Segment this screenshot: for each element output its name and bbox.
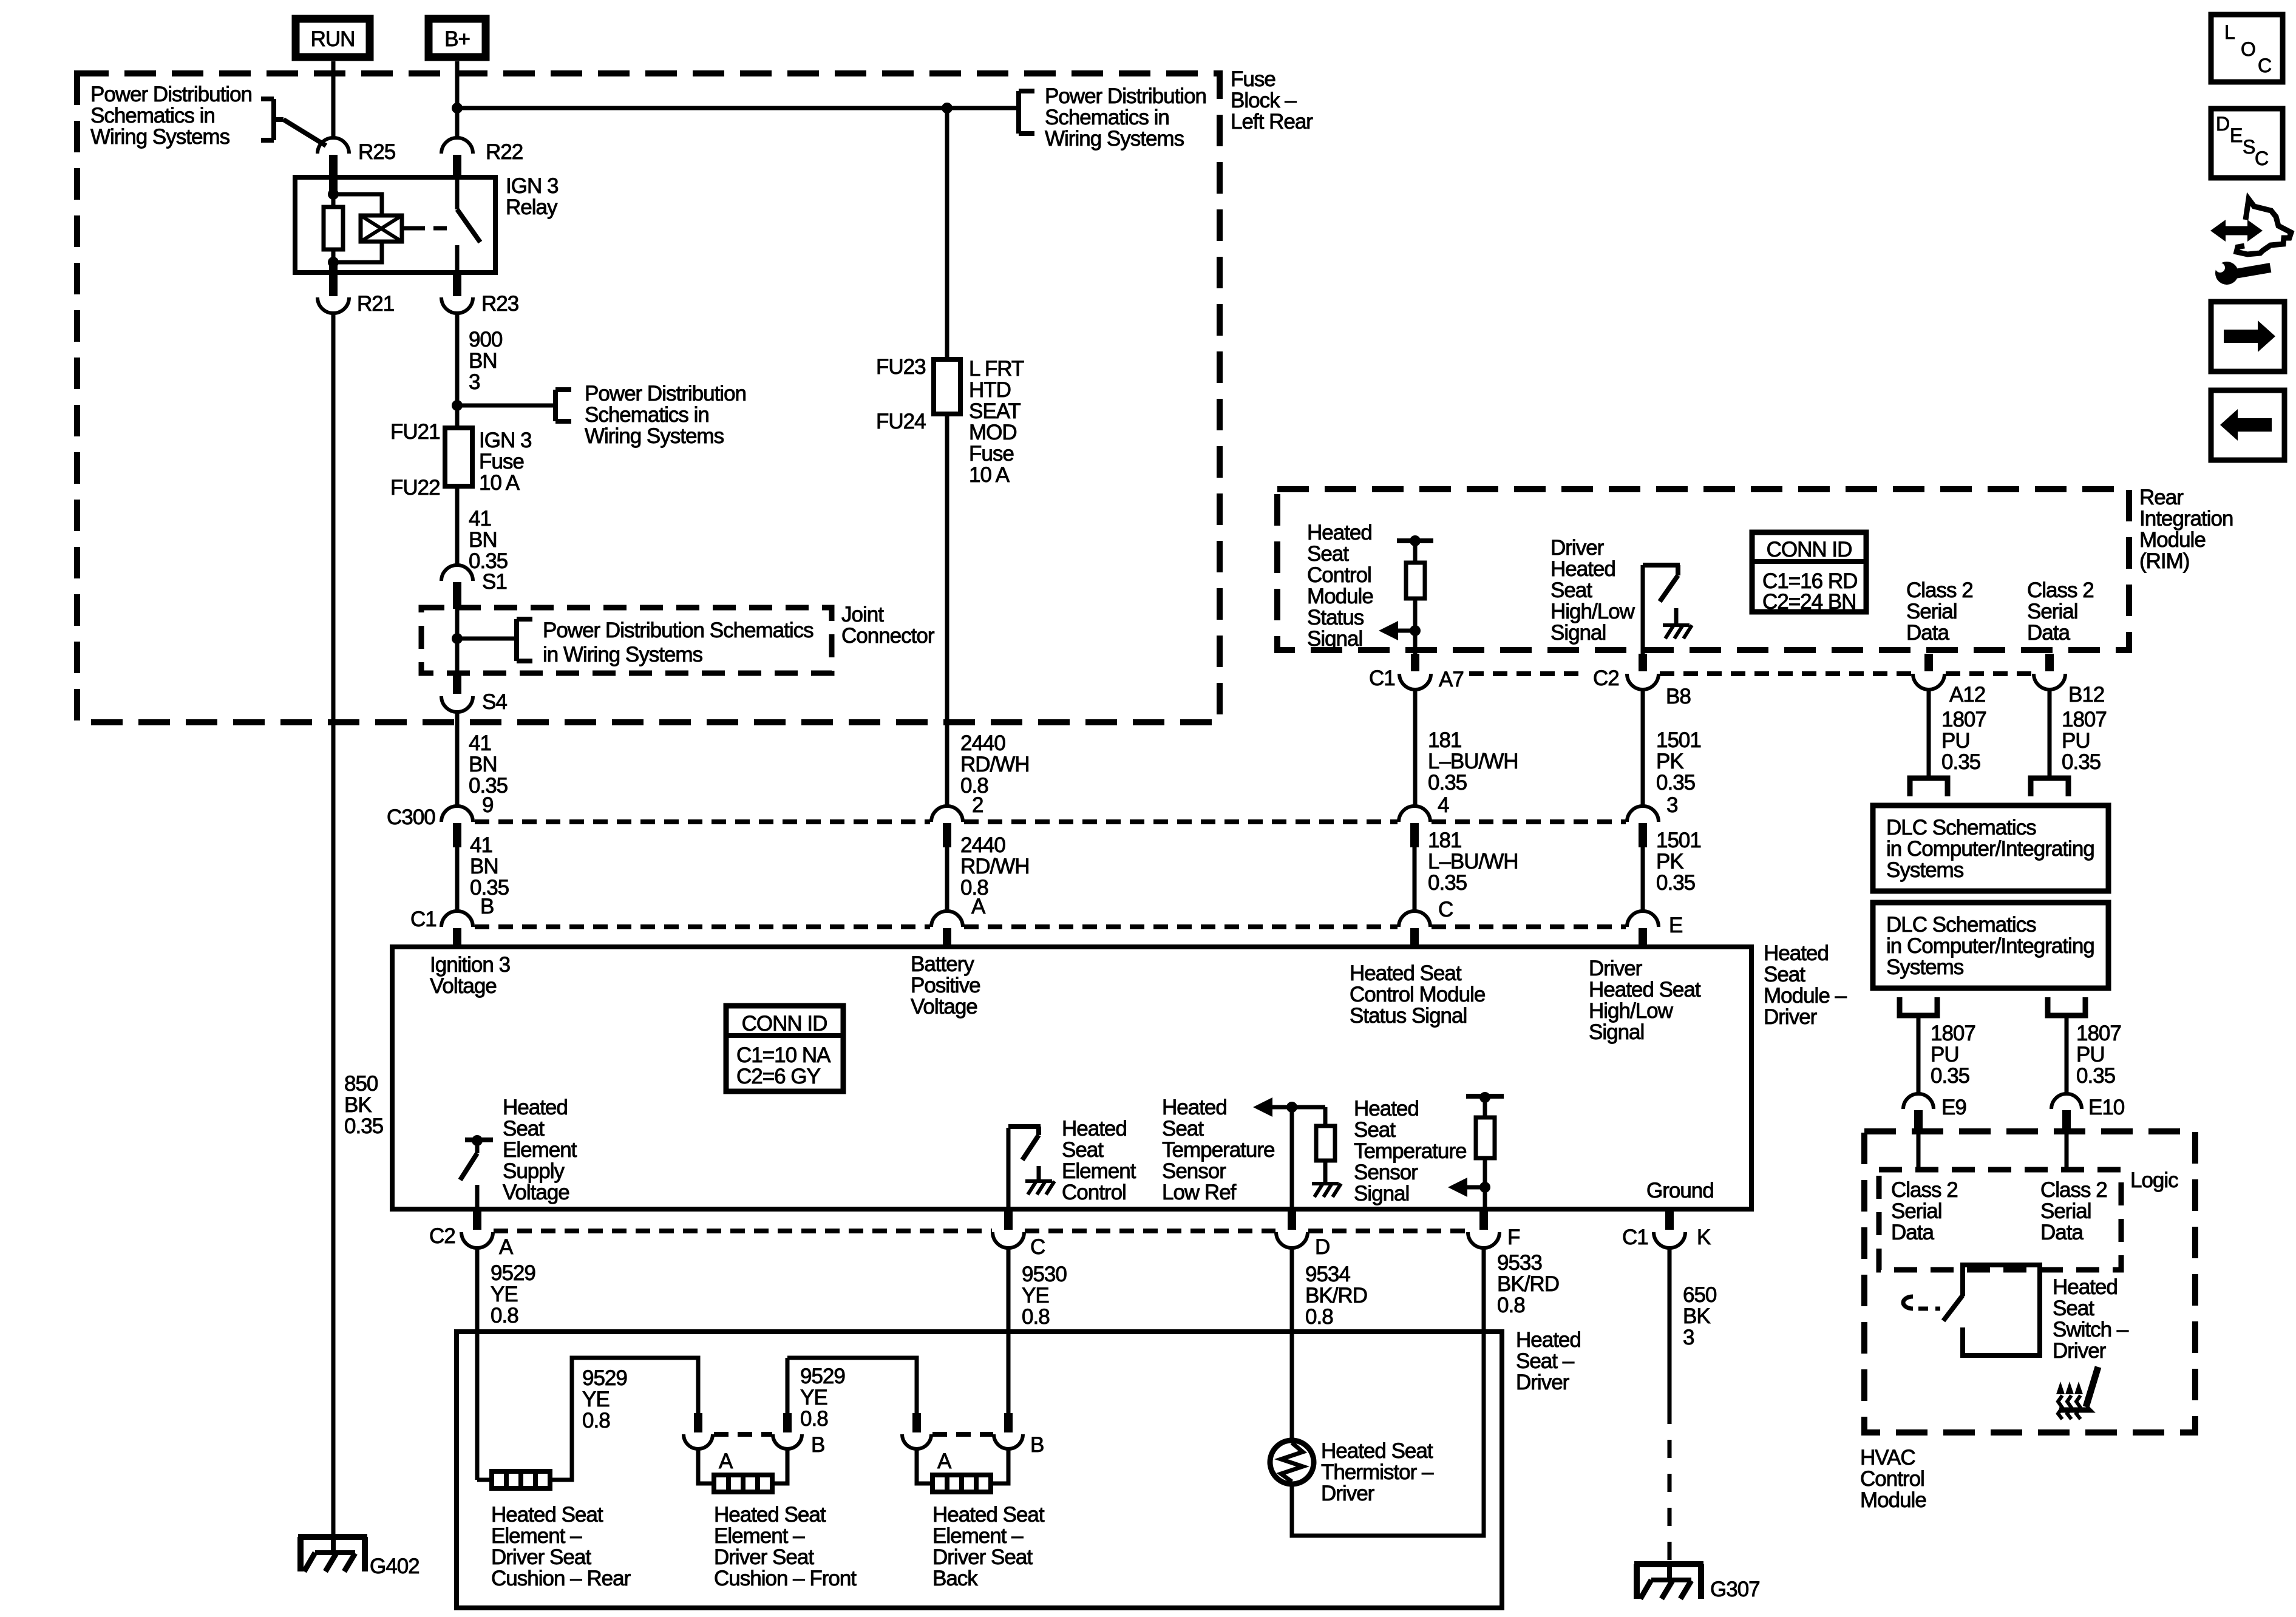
label 9529 YE 0.8 (element bridge 2) xyxy=(800,1364,845,1431)
svg-text:C: C xyxy=(2258,55,2271,76)
svg-text:850: 850 xyxy=(344,1072,378,1096)
svg-text:Seat: Seat xyxy=(1354,1118,1396,1142)
svg-text:PU: PU xyxy=(1941,729,1970,753)
label Logic xyxy=(2130,1168,2178,1192)
svg-text:Data: Data xyxy=(1906,621,1949,645)
svg-text:Heated Seat: Heated Seat xyxy=(1321,1439,1433,1463)
svg-text:Driver Seat: Driver Seat xyxy=(491,1545,591,1569)
fuse block left rear dashed box xyxy=(77,73,1220,722)
svg-text:9530: 9530 xyxy=(1022,1263,1067,1286)
svg-text:Control Module: Control Module xyxy=(1350,983,1485,1006)
svg-text:Voltage: Voltage xyxy=(911,995,977,1019)
svg-text:A12: A12 xyxy=(1949,683,1985,707)
wire 41 BN 0.35 C300 to C1 xyxy=(455,847,460,912)
label 650 BK 3 (pin K) xyxy=(1683,1283,1717,1349)
svg-text:C1=10 NA: C1=10 NA xyxy=(736,1043,831,1067)
svg-text:1807: 1807 xyxy=(2076,1022,2121,1045)
svg-text:Data: Data xyxy=(1891,1221,1934,1244)
svg-text:Serial: Serial xyxy=(1906,600,1957,623)
wire through joint connector xyxy=(455,606,460,675)
icon arrow left xyxy=(2211,390,2284,460)
connector element2 pin A xyxy=(684,1413,733,1473)
label Class 2 Serial Data (RIM right) xyxy=(2027,578,2094,645)
svg-text:PK: PK xyxy=(1656,850,1683,873)
pointer bracket power distribution (middle) xyxy=(457,390,571,421)
svg-text:BN: BN xyxy=(470,855,498,878)
svg-text:C: C xyxy=(2255,147,2268,169)
svg-text:Systems: Systems xyxy=(1886,858,1964,882)
label 41 BN 0.35 B xyxy=(470,833,509,918)
svg-text:PU: PU xyxy=(1931,1043,1959,1066)
svg-text:Heated: Heated xyxy=(1550,557,1615,581)
svg-text:PK: PK xyxy=(1656,750,1683,773)
wire 9534 pin D to thermistor xyxy=(1290,1248,1294,1441)
label FU24 xyxy=(876,410,926,433)
svg-text:MOD: MOD xyxy=(969,421,1017,444)
svg-text:C2: C2 xyxy=(1593,666,1619,690)
terminal goalpost A12 xyxy=(1910,778,1948,796)
terminal goalpost E9 xyxy=(1900,997,1937,1015)
label Driver Heated Seat High/Low Signal (RIM) xyxy=(1550,536,1635,645)
svg-text:Schematics in: Schematics in xyxy=(585,403,709,427)
svg-text:Relay: Relay xyxy=(506,195,558,219)
svg-text:Wiring Systems: Wiring Systems xyxy=(585,424,724,448)
label 2440 RD/WH 0.8 A xyxy=(960,833,1030,918)
ground G402 xyxy=(298,1537,419,1578)
connector C1 A7 xyxy=(1369,654,1464,691)
wire 1501 PK to pin E xyxy=(1641,847,1645,912)
icon arrow right xyxy=(2211,302,2284,371)
svg-text:A: A xyxy=(719,1449,733,1473)
svg-text:S: S xyxy=(2243,136,2255,158)
svg-text:Module: Module xyxy=(1860,1488,1926,1512)
label FU23 xyxy=(876,355,926,379)
connector C2 pin F xyxy=(1468,1212,1520,1249)
svg-text:Serial: Serial xyxy=(1891,1199,1941,1223)
label Driver Heated Seat High/Low Signal (module) xyxy=(1589,957,1701,1044)
connector C300 pin 9/B xyxy=(441,806,473,847)
svg-text:Class 2: Class 2 xyxy=(1906,578,1973,602)
label Heated Seat Module - Driver xyxy=(1764,941,1847,1029)
svg-text:Heated: Heated xyxy=(1764,941,1829,965)
connector C1 pin K xyxy=(1622,1212,1711,1249)
svg-text:Module: Module xyxy=(2139,528,2206,552)
wire 650 BK pin K to G307 xyxy=(1668,1248,1672,1565)
svg-text:Fuse: Fuse xyxy=(969,442,1014,466)
wire B+ to relay R22 xyxy=(455,61,460,138)
wire RUN to relay R25 xyxy=(331,61,336,138)
element2 connector dashed link xyxy=(714,1432,772,1437)
svg-text:Driver: Driver xyxy=(1764,1005,1818,1029)
connector E9 xyxy=(1903,1094,1966,1134)
svg-text:C1: C1 xyxy=(1369,666,1395,690)
node fuse feed junction xyxy=(452,400,463,411)
svg-text:3: 3 xyxy=(1666,793,1677,817)
svg-text:9533: 9533 xyxy=(1497,1251,1542,1275)
label 1501 PK 0.35 E xyxy=(1656,829,1701,937)
wire element2 to element3 xyxy=(772,1358,917,1483)
svg-text:0.8: 0.8 xyxy=(1305,1305,1333,1329)
svg-text:Class 2: Class 2 xyxy=(2040,1178,2107,1202)
svg-text:Driver: Driver xyxy=(1321,1482,1375,1505)
svg-text:0.35: 0.35 xyxy=(1931,1064,1969,1088)
svg-text:1807: 1807 xyxy=(2062,708,2107,731)
svg-text:YE: YE xyxy=(491,1283,518,1306)
pointer bracket to R25 xyxy=(261,99,326,146)
connector C2 B8 xyxy=(1593,654,1691,708)
conn id table module xyxy=(726,1006,843,1091)
svg-text:9529: 9529 xyxy=(800,1364,845,1388)
switch RIM high/low xyxy=(1643,565,1692,654)
label 1807 PU 0.35 (E9) xyxy=(1931,1022,1975,1088)
svg-text:Sensor: Sensor xyxy=(1354,1161,1418,1184)
svg-text:Ignition 3: Ignition 3 xyxy=(430,953,510,977)
svg-text:Power Distribution: Power Distribution xyxy=(1045,84,1206,108)
wire 9533 thermistor to pin F xyxy=(1292,1248,1484,1536)
svg-text:Status Signal: Status Signal xyxy=(1350,1004,1467,1028)
connector row C300 dashed line xyxy=(475,819,1626,824)
svg-text:Cushion – Rear: Cushion – Rear xyxy=(491,1567,631,1590)
svg-text:Seat: Seat xyxy=(503,1117,545,1141)
svg-text:Temperature: Temperature xyxy=(1354,1139,1466,1163)
connector C1 pin C xyxy=(1399,911,1430,949)
resistor temp sensor low ref pull xyxy=(1253,1097,1341,1209)
svg-text:Driver: Driver xyxy=(1550,536,1605,560)
svg-text:Rear: Rear xyxy=(2139,486,2184,509)
heated seat element driver seat cushion rear xyxy=(492,1471,550,1488)
svg-text:Element –: Element – xyxy=(932,1524,1024,1548)
svg-text:1807: 1807 xyxy=(1931,1022,1975,1045)
svg-text:0.8: 0.8 xyxy=(1497,1293,1525,1317)
resistor temp sensor signal pull xyxy=(1448,1092,1504,1209)
icon heated seat xyxy=(2056,1367,2098,1419)
svg-text:A: A xyxy=(971,895,986,918)
label power distribution schematics (top left) xyxy=(90,83,252,149)
wire element1 to element2 connector A xyxy=(550,1358,698,1480)
svg-text:BN: BN xyxy=(469,349,497,373)
svg-text:Heated Seat: Heated Seat xyxy=(491,1503,603,1527)
node B+ junction xyxy=(452,103,463,114)
svg-text:BN: BN xyxy=(469,753,497,776)
svg-text:E: E xyxy=(2230,124,2242,146)
svg-text:E10: E10 xyxy=(2088,1096,2125,1119)
terminal RUN xyxy=(296,19,370,57)
svg-text:FU21: FU21 xyxy=(390,420,440,444)
joint connector dashed box xyxy=(421,608,832,673)
label Heated Seat Element - Driver Seat Cushion - Front xyxy=(714,1503,857,1590)
svg-text:Schematics in: Schematics in xyxy=(90,104,215,127)
svg-text:High/Low: High/Low xyxy=(1589,999,1674,1023)
wire 181 L-BU/WH to pin C xyxy=(1413,847,1417,912)
svg-text:Cushion – Front: Cushion – Front xyxy=(714,1567,857,1590)
svg-text:Power Distribution: Power Distribution xyxy=(90,83,252,106)
svg-text:L: L xyxy=(2224,21,2235,43)
wire 41 BN 0.35 S4 to C300 xyxy=(455,712,460,807)
svg-text:O: O xyxy=(2241,38,2255,60)
label C1 xyxy=(410,907,436,931)
svg-text:0.8: 0.8 xyxy=(491,1304,518,1327)
svg-text:0.8: 0.8 xyxy=(1022,1305,1050,1329)
wire 1807 PU B12 to DLC xyxy=(2048,690,2052,778)
label C300 xyxy=(387,805,435,829)
element3 connector dashed link xyxy=(932,1432,993,1437)
wire E9 into logic xyxy=(1917,1134,1921,1170)
svg-text:C2=6 GY: C2=6 GY xyxy=(736,1065,821,1088)
label 9533 BK/RD 0.8 (pin F) xyxy=(1497,1251,1559,1317)
svg-text:Class 2: Class 2 xyxy=(2027,578,2094,602)
connector element3 pin A xyxy=(902,1413,952,1473)
relay switch xyxy=(457,177,480,273)
connector B12 xyxy=(2034,654,2104,707)
svg-text:Module –: Module – xyxy=(1764,984,1847,1008)
svg-text:Voltage: Voltage xyxy=(503,1181,569,1204)
label IGN 3 Fuse 10 A xyxy=(479,429,531,495)
relay coil circuit xyxy=(324,177,412,273)
label 9529 YE 0.8 (element bridge 1) xyxy=(582,1366,627,1432)
rear integration module dashed box xyxy=(1277,489,2129,650)
svg-text:in Wiring Systems: in Wiring Systems xyxy=(543,643,703,666)
label FU22 xyxy=(390,476,440,500)
svg-text:(RIM): (RIM) xyxy=(2139,549,2189,573)
wire 1501 PK B8 to C300 row xyxy=(1641,690,1645,807)
svg-text:L–BU/WH: L–BU/WH xyxy=(1428,850,1518,873)
label Heated Seat Element - Driver Seat Back xyxy=(932,1503,1045,1590)
svg-text:R25: R25 xyxy=(358,140,395,164)
svg-text:E9: E9 xyxy=(1941,1096,1966,1119)
svg-text:S1: S1 xyxy=(482,570,507,594)
thermistor heated seat driver xyxy=(1270,1440,1314,1484)
svg-text:10 A: 10 A xyxy=(969,463,1010,487)
heated seat element driver seat back xyxy=(932,1475,991,1492)
svg-text:1807: 1807 xyxy=(1941,708,1986,731)
wire 1807 PU to E9 xyxy=(1917,1015,1921,1094)
wire 1807 PU to E10 xyxy=(2065,1015,2069,1094)
svg-text:Driver: Driver xyxy=(1516,1371,1570,1394)
label Heated Seat Temperature Sensor Low Ref xyxy=(1162,1096,1274,1204)
svg-text:S4: S4 xyxy=(482,690,507,714)
svg-text:900: 900 xyxy=(469,328,503,351)
pointer bracket power distribution right xyxy=(947,91,1034,134)
svg-text:Temperature: Temperature xyxy=(1162,1138,1274,1162)
terminal goalpost B12 xyxy=(2031,778,2068,796)
svg-text:L–BU/WH: L–BU/WH xyxy=(1428,750,1518,773)
svg-text:181: 181 xyxy=(1428,728,1461,752)
svg-text:Element: Element xyxy=(1062,1159,1136,1183)
svg-text:3: 3 xyxy=(1683,1326,1694,1349)
label Ignition 3 Voltage xyxy=(430,953,510,998)
label 41 BN 0.35 9 xyxy=(469,731,508,817)
svg-text:Integration: Integration xyxy=(2139,507,2233,531)
label Heated Seat Switch - Driver xyxy=(2053,1275,2129,1363)
connector E10 xyxy=(2051,1094,2125,1134)
svg-text:HVAC: HVAC xyxy=(1860,1446,1915,1470)
svg-text:Logic: Logic xyxy=(2130,1168,2178,1192)
svg-text:0.35: 0.35 xyxy=(1656,771,1695,795)
svg-text:Heated Seat: Heated Seat xyxy=(1350,961,1462,985)
svg-text:Data: Data xyxy=(2040,1221,2084,1244)
svg-text:Serial: Serial xyxy=(2040,1199,2091,1223)
svg-text:Voltage: Voltage xyxy=(430,974,497,998)
svg-text:FU22: FU22 xyxy=(390,476,440,500)
wire 2440 RD/WH C300 to C1 xyxy=(945,847,949,912)
label 1807 PU 0.35 (E10) xyxy=(2076,1022,2121,1088)
label 9530 YE 0.8 (pin C) xyxy=(1022,1263,1067,1329)
node feed corner junction xyxy=(942,103,953,114)
connector C2 pin A xyxy=(461,1212,514,1259)
label Class 2 Serial Data (RIM left) xyxy=(1906,578,1973,645)
connector row C1 dashed line xyxy=(475,924,1626,929)
svg-text:BN: BN xyxy=(469,528,497,552)
svg-text:YE: YE xyxy=(800,1386,827,1409)
svg-text:Ground: Ground xyxy=(1646,1179,1714,1202)
label 181 L-BU/WH 0.35 C xyxy=(1428,829,1518,921)
svg-text:F: F xyxy=(1507,1225,1520,1249)
module heated seat module driver box xyxy=(392,947,1751,1209)
svg-text:PU: PU xyxy=(2062,729,2090,753)
svg-text:Driver Seat: Driver Seat xyxy=(932,1545,1033,1569)
svg-text:D: D xyxy=(1315,1235,1330,1259)
svg-text:Wiring Systems: Wiring Systems xyxy=(90,125,230,149)
svg-text:1501: 1501 xyxy=(1656,728,1701,752)
svg-text:DLC Schematics: DLC Schematics xyxy=(1886,913,2036,937)
svg-text:1501: 1501 xyxy=(1656,829,1701,852)
svg-text:41: 41 xyxy=(470,833,492,857)
svg-text:Driver: Driver xyxy=(2053,1339,2107,1363)
svg-text:Seat: Seat xyxy=(1062,1138,1104,1162)
label Battery Positive Voltage xyxy=(911,952,980,1019)
svg-text:A7: A7 xyxy=(1439,668,1464,691)
connector C300 pin 2/A xyxy=(931,806,963,847)
connector row C2 dashed line xyxy=(494,1229,1467,1233)
svg-text:0.35: 0.35 xyxy=(1428,771,1467,795)
label Class 2 Serial Data (logic left) xyxy=(1891,1178,1958,1244)
svg-text:PU: PU xyxy=(2076,1043,2105,1066)
fuse FU21/FU22 IGN 3 xyxy=(445,428,472,486)
label 9534 BK/RD 0.8 (pin D) xyxy=(1305,1263,1367,1329)
svg-text:Control: Control xyxy=(1307,563,1371,587)
svg-text:Left Rear: Left Rear xyxy=(1231,110,1313,134)
label Fuse Block - Left Rear xyxy=(1231,67,1313,134)
logic dashed box xyxy=(1879,1170,2121,1270)
wire B+ feed to fuse block right xyxy=(457,106,947,110)
svg-text:Fuse: Fuse xyxy=(479,450,524,473)
svg-text:R21: R21 xyxy=(357,292,394,316)
svg-text:Seat: Seat xyxy=(1550,578,1592,602)
svg-text:Heated: Heated xyxy=(503,1096,568,1119)
svg-text:BK/RD: BK/RD xyxy=(1305,1284,1367,1307)
label 850 BK 0.35 xyxy=(344,1072,383,1138)
svg-text:Low Ref: Low Ref xyxy=(1162,1181,1237,1204)
label Heated Seat Control Module Status Signal (RIM) xyxy=(1307,521,1373,651)
svg-text:BK: BK xyxy=(344,1093,372,1117)
svg-text:Driver: Driver xyxy=(1589,957,1643,980)
svg-text:RUN: RUN xyxy=(311,27,355,51)
wire 1807 PU A12 to DLC xyxy=(1927,690,1931,778)
svg-text:41: 41 xyxy=(469,731,491,755)
label Heated Seat Thermistor - Driver xyxy=(1321,1439,1434,1505)
svg-text:9529: 9529 xyxy=(582,1366,627,1390)
svg-text:0.8: 0.8 xyxy=(800,1407,828,1431)
label Heated Seat Element Supply Voltage xyxy=(503,1096,577,1204)
connector A12 xyxy=(1913,654,1985,707)
svg-text:3: 3 xyxy=(469,370,480,394)
wire 900 BN 3 xyxy=(455,313,460,564)
svg-text:C1: C1 xyxy=(1622,1225,1648,1249)
svg-text:B: B xyxy=(1030,1433,1044,1457)
svg-text:G402: G402 xyxy=(370,1554,419,1578)
svg-text:Seat –: Seat – xyxy=(1516,1349,1575,1373)
svg-text:0.35: 0.35 xyxy=(1941,750,1980,774)
connector R25 xyxy=(318,138,395,177)
connector element3 pin B xyxy=(994,1413,1044,1457)
svg-text:650: 650 xyxy=(1683,1283,1717,1307)
connector C1 pin B xyxy=(441,911,473,949)
svg-text:Switch –: Switch – xyxy=(2053,1318,2129,1341)
label 1501 PK 0.35 3 xyxy=(1656,728,1701,817)
wire 9529 pin A to element 1 xyxy=(477,1248,492,1480)
label Class 2 Serial Data (logic right) xyxy=(2040,1178,2107,1244)
svg-text:9: 9 xyxy=(482,793,493,817)
svg-text:Power Distribution Schematics: Power Distribution Schematics xyxy=(543,619,813,642)
svg-text:Control: Control xyxy=(1860,1467,1924,1491)
svg-text:Heated: Heated xyxy=(2053,1275,2118,1299)
svg-text:B12: B12 xyxy=(2068,683,2104,707)
wire element2 A down to element 2 xyxy=(698,1449,714,1483)
node joint connector junction xyxy=(452,633,463,644)
svg-text:Block –: Block – xyxy=(1231,89,1297,112)
connector C2 pin C xyxy=(993,1212,1045,1259)
svg-text:Heated Seat: Heated Seat xyxy=(714,1503,826,1527)
svg-text:DLC Schematics: DLC Schematics xyxy=(1886,816,2036,839)
label Rear Integration Module (RIM) xyxy=(2139,486,2233,573)
svg-text:Connector: Connector xyxy=(841,624,935,648)
svg-text:R23: R23 xyxy=(481,292,518,316)
svg-text:CONN ID: CONN ID xyxy=(1767,538,1852,561)
svg-text:C300: C300 xyxy=(387,805,435,829)
svg-text:Driver Seat: Driver Seat xyxy=(714,1545,814,1569)
svg-text:Battery: Battery xyxy=(911,952,974,976)
switch heated seat element control xyxy=(1008,1127,1055,1209)
label Heated Seat Control Module Status Signal (module) xyxy=(1350,961,1485,1028)
label 41 BN 0.35 (above S1) xyxy=(469,507,508,573)
wire 181 L-BU/WH A7 to C300 row xyxy=(1413,690,1418,807)
label Heated Seat Element Control xyxy=(1062,1117,1136,1204)
svg-text:Back: Back xyxy=(932,1567,978,1590)
wire 850 BK to G402 xyxy=(331,313,336,1538)
svg-text:2: 2 xyxy=(972,793,983,817)
svg-text:Fuse: Fuse xyxy=(1231,67,1275,91)
label Heated Seat - Driver xyxy=(1516,1328,1581,1394)
svg-text:4: 4 xyxy=(1438,793,1449,817)
svg-text:Class 2: Class 2 xyxy=(1891,1178,1958,1202)
terminal B+ xyxy=(429,19,486,57)
svg-text:A: A xyxy=(499,1235,514,1259)
svg-text:Data: Data xyxy=(2027,621,2070,645)
label power distribution schematics (middle) xyxy=(585,382,746,448)
ground G307 xyxy=(1634,1564,1760,1601)
svg-text:Element: Element xyxy=(503,1138,577,1162)
label IGN 3 Relay xyxy=(506,174,558,219)
svg-text:FU23: FU23 xyxy=(876,355,926,379)
terminal goalpost E10 xyxy=(2048,997,2085,1015)
svg-text:Element –: Element – xyxy=(491,1524,582,1548)
svg-text:Control: Control xyxy=(1062,1181,1126,1204)
label 9529 YE 0.8 (pin A) xyxy=(491,1261,535,1327)
svg-text:YE: YE xyxy=(1022,1284,1049,1307)
label Joint Connector xyxy=(841,603,935,648)
wire 9530 element3 B to pin C xyxy=(991,1248,1008,1483)
svg-text:Heated: Heated xyxy=(1307,521,1372,544)
